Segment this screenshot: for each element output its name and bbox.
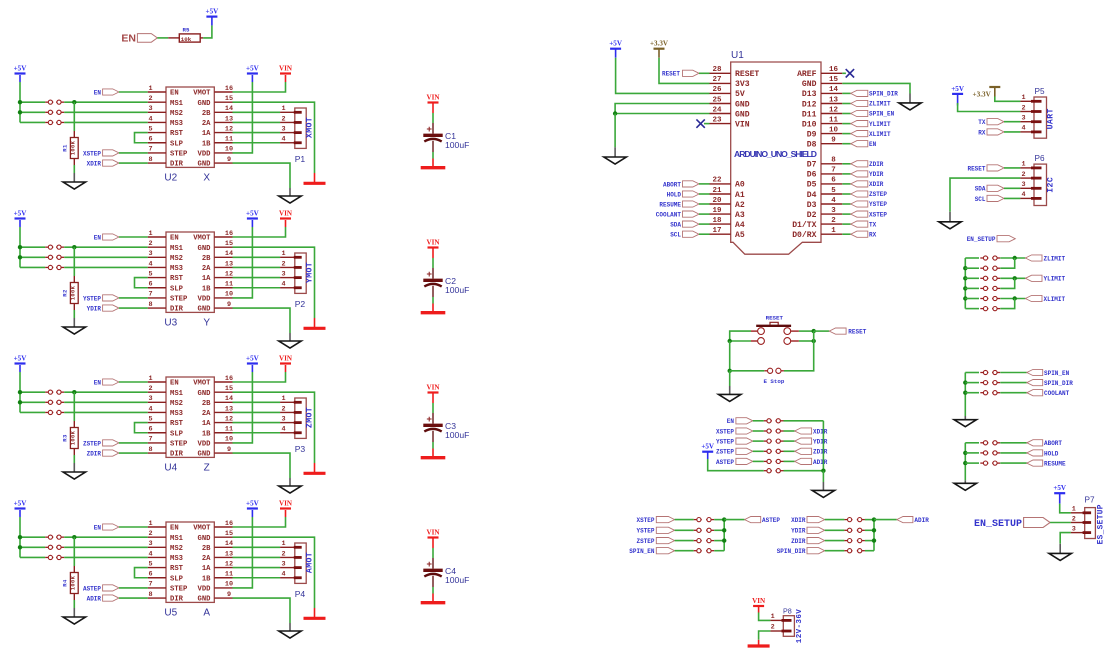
svg-text:XSTEP: XSTEP [83,150,101,157]
svg-text:26: 26 [712,86,722,94]
svg-text:9: 9 [227,156,231,164]
ground (switch) [729,386,731,394]
svg-text:3: 3 [831,207,836,215]
svg-text:U3: U3 [164,317,177,328]
svg-text:VIN: VIN [426,383,440,391]
svg-text:+5V: +5V [1053,484,1067,492]
wire switch row1 right [799,330,814,332]
svg-text:RST: RST [170,565,184,573]
svg-text:X: X [203,173,210,184]
wire MS2 A [64,546,148,548]
svg-text:EN: EN [94,524,102,531]
wire RST-SLP loop U4 [135,423,148,433]
svg-text:3: 3 [282,270,286,278]
wire RST-SLP loop U3 [135,278,148,288]
wire rail (ASTEP) [723,520,725,551]
pin 3 D2 U1 [821,213,842,215]
svg-text:A1: A1 [735,191,745,200]
svg-text:1: 1 [282,105,286,113]
svg-text:5: 5 [148,415,152,423]
svg-text:6: 6 [148,571,152,579]
svg-text:3: 3 [148,250,152,258]
wire +3.3V to P5 pin1 [995,97,1021,102]
svg-text:RESUME: RESUME [1044,461,1066,468]
svg-text:1: 1 [831,227,836,235]
wire rail (ADIR) [873,520,875,551]
wire MS1 to R1 [73,102,75,131]
jumper limit row 6 [980,308,988,310]
svg-text:XMOT: XMOT [306,117,315,138]
svg-text:3V3: 3V3 [735,80,750,89]
jumper SPIN_DIR [980,382,988,384]
wire ZSTEP to pin7 U4 [119,442,148,444]
svg-text:2: 2 [282,405,286,413]
svg-text:10: 10 [225,291,233,299]
svg-text:2A: 2A [202,120,211,128]
svg-text:XLIMIT: XLIMIT [1044,296,1066,303]
svg-text:ABORT: ABORT [1044,440,1062,447]
svg-text:MS2: MS2 [170,255,183,263]
svg-text:YMOT: YMOT [306,262,315,283]
wire VMOT to VIN Z [233,372,286,382]
svg-text:3: 3 [282,415,286,423]
svg-text:4: 4 [282,571,286,579]
svg-text:24: 24 [712,106,722,114]
svg-text:1: 1 [148,520,152,528]
svg-text:GND: GND [735,100,750,109]
junction +5V/MS2 X [18,110,22,114]
junction limit rail 4 [963,296,967,300]
svg-text:15: 15 [225,530,233,538]
svg-text:U2: U2 [164,172,177,183]
junction limit rail 1 [963,266,967,270]
wire jumper to ADIR [784,460,795,462]
net flag XDIR (U1 D5) [842,183,850,185]
wire +5V to MS jumpers Z [19,372,21,412]
wire MS1 Y [64,246,148,248]
wire spin rail [964,373,966,417]
wire EN to pin1 U5 [119,526,148,528]
svg-text:14: 14 [829,86,839,94]
svg-text:4: 4 [148,405,152,413]
svg-text:ZMOT: ZMOT [306,407,315,428]
wire jumper to YDIR [784,440,795,442]
svg-text:XDIR: XDIR [791,517,806,524]
wire MS1 X [64,101,148,103]
wire spin row 2 [965,382,979,384]
resistor R4 100K [73,566,75,573]
jumper MS2 Y [45,256,53,258]
svg-text:VMOT: VMOT [193,380,211,388]
svg-text:D1/TX: D1/TX [792,221,816,230]
wire EN_SETUP to P7 pin2 [1050,522,1071,524]
svg-text:+5V: +5V [14,209,28,217]
wires 2B 2A 1A 1B to P3 [233,401,281,403]
wire right down to E-stop [784,331,814,371]
wire +5V to VDD U2 [233,82,253,153]
wire abort row 3 [965,462,979,464]
svg-text:8: 8 [148,591,152,599]
svg-text:VIN: VIN [279,64,293,72]
wire C2 to ground [432,297,434,304]
power VIN (Z VMOT) [285,365,287,372]
svg-text:13: 13 [829,96,839,104]
svg-text:VIN: VIN [426,238,440,246]
wire +5V to P7 pin1 [1060,504,1071,513]
junction spin rail 1 [963,380,967,384]
svg-text:100uF: 100uF [445,285,469,295]
wire VMOT to VIN A [233,517,286,527]
svg-text:2: 2 [148,95,152,103]
svg-text:15: 15 [225,95,233,103]
svg-text:100K: 100K [71,140,77,155]
svg-text:4: 4 [1021,125,1025,133]
stepper driver IC U3 [166,232,214,312]
svg-text:11: 11 [225,426,233,434]
wire R1 to ground [73,165,75,173]
svg-text:XSTEP: XSTEP [869,211,887,218]
svg-text:ADIR: ADIR [87,595,102,602]
wire ADIR to pin8 U5 [119,597,148,599]
junction row2 left [728,339,732,343]
wire P8 pin2 to ground [759,631,771,640]
svg-text:EN: EN [170,525,179,533]
svg-text:1: 1 [282,395,286,403]
svg-text:RX: RX [978,129,986,136]
svg-text:9: 9 [227,301,231,309]
wire GND pin15 U4 [233,392,315,463]
connector P1 XMOT [295,108,306,148]
svg-text:+5V: +5V [246,499,260,507]
svg-text:MS1: MS1 [170,245,184,253]
jumper YSTEP/ASTEP [694,529,702,531]
svg-text:+5V: +5V [14,499,28,507]
svg-text:1A: 1A [202,420,211,428]
jumper ZDIR/ADIR [844,540,852,542]
svg-text:MS2: MS2 [170,110,183,118]
resistor R1 100K [73,131,75,138]
svg-text:8: 8 [148,446,152,454]
no-connect X on VIN pin23 [704,123,710,125]
svg-text:EN_SETUP: EN_SETUP [974,519,1022,530]
svg-text:U5: U5 [164,607,177,618]
wire VMOT to VIN X [233,82,286,92]
svg-text:VDD: VDD [198,296,212,304]
svg-text:YLIMIT: YLIMIT [1044,276,1066,283]
jumper SPIN_EN [980,372,988,374]
wire bottom to junction [784,470,824,472]
E-stop contacts [768,368,773,373]
svg-text:RESET: RESET [967,165,985,172]
svg-text:STEP: STEP [170,151,188,159]
wire abort row 2 [965,452,979,454]
svg-text:2: 2 [282,115,286,123]
wire jumper to RESUME [1000,462,1027,464]
net flag ZSTEP (U1 D4) [842,193,850,195]
jumper SPIN_EN/ASTEP [694,550,702,552]
junction MS1/R4 A [72,535,76,539]
svg-text:1B: 1B [202,430,211,438]
wire MS3 Y [64,266,148,268]
svg-text:RST: RST [170,130,184,138]
ground (U1 left) [614,147,616,157]
svg-text:4: 4 [148,115,152,123]
svg-text:1: 1 [282,250,286,258]
capacitor C2 100uF [432,268,434,279]
wire MS1 to R2 [73,247,75,276]
ground red (C3) [432,449,434,457]
wire GND pins 25/24 [615,104,709,114]
resistor R5 10k [168,37,179,39]
jumper limit row 3 [980,277,988,279]
wire R5 to +5V [203,25,212,38]
capacitor C3 100uF [432,413,434,424]
pin 25 GND U1 [710,103,731,105]
wire spin row 3 [965,392,979,394]
wire +5V to MS jumpers A [19,517,21,557]
svg-text:ASTEP: ASTEP [83,585,101,592]
ground (pin9 U3) [289,333,291,341]
ground (P7) [1059,544,1061,554]
junction MS1/R2 Y [72,245,76,249]
wire jumper to rail [714,540,724,542]
svg-text:TX: TX [869,221,877,228]
svg-text:D12: D12 [802,100,817,109]
svg-text:HOLD: HOLD [667,191,682,198]
net flag HOLD [1027,450,1043,456]
svg-text:RESET: RESET [735,70,759,79]
wire GND pin9 U3 [233,308,291,333]
svg-text:+: + [426,414,432,425]
svg-text:Y: Y [203,318,210,329]
jumper limit row 2 [980,267,988,269]
wire MS3 X [64,121,148,123]
jumper limit row 1 [980,257,988,259]
wire XSTEP to jumper [675,519,694,521]
svg-text:VMOT: VMOT [193,235,211,243]
wire YSTEP to pin7 U3 [119,297,148,299]
svg-text:16: 16 [225,520,233,528]
wires 2B 2A 1A 1B to P2 [233,256,281,258]
wire EN to R5 [157,37,168,39]
svg-text:GND: GND [735,110,750,119]
svg-text:+: + [426,269,432,280]
svg-text:YDIR: YDIR [869,171,884,178]
svg-text:STEP: STEP [170,586,188,594]
pin 4 D3 U1 [821,203,842,205]
svg-text:17: 17 [712,227,721,235]
pin 1 D0/RX U1 [821,233,842,235]
wire jumper to ZLIMIT [1000,257,1025,259]
svg-text:I2C: I2C [1047,177,1056,193]
power +5V (R5) [211,17,213,26]
junction rail ADIR 2 [872,528,876,532]
svg-text:12: 12 [225,270,233,278]
junction XLIMIT [1013,296,1017,300]
svg-text:8: 8 [148,156,152,164]
svg-text:11: 11 [225,136,233,144]
svg-text:1: 1 [282,540,286,548]
wire ASTEP to jumper [753,460,764,462]
svg-text:YLIMIT: YLIMIT [869,121,891,128]
wire MS3 Z [64,411,148,413]
svg-text:14: 14 [225,540,233,548]
svg-text:VMOT: VMOT [193,90,211,98]
svg-text:2: 2 [831,217,836,225]
wire VMOT to VIN Y [233,227,286,237]
wire switch row2 left [730,340,751,342]
svg-text:MS1: MS1 [170,100,184,108]
net flag RX (U1 D0/RX) [842,233,850,235]
svg-text:MS3: MS3 [170,555,183,563]
svg-text:R3: R3 [62,434,69,442]
svg-text:3: 3 [1021,181,1025,189]
wire RESET to P6 pin1 [1004,167,1020,169]
capacitor C4 100uF [432,558,434,569]
svg-text:RESET: RESET [662,71,680,78]
svg-text:9: 9 [227,591,231,599]
svg-text:GND: GND [198,390,212,398]
svg-text:RESET: RESET [766,315,784,322]
svg-text:COOLANT: COOLANT [1044,390,1070,397]
svg-text:20: 20 [712,197,722,205]
svg-text:P5: P5 [1034,87,1044,96]
junction +5V/MS1 A [18,535,22,539]
net flag YDIR (matrix) [795,438,812,444]
jumper SPIN_DIR/ADIR [844,550,852,552]
svg-text:A2: A2 [735,201,745,210]
svg-text:100uF: 100uF [445,430,469,440]
jumper matrix row 5 [764,460,772,462]
wire GND pin9 U2 [233,163,291,188]
svg-text:+5V: +5V [14,64,28,72]
svg-text:D7: D7 [807,161,817,170]
net flag SPIN_EN [1027,369,1043,375]
wire YDIR to pin8 U3 [119,307,148,309]
svg-text:1B: 1B [202,285,211,293]
connector P3 ZMOT [295,398,306,438]
svg-text:100K: 100K [71,430,77,445]
svg-text:2A: 2A [202,410,211,418]
svg-text:RST: RST [170,420,184,428]
svg-text:VIN: VIN [279,499,293,507]
svg-text:2: 2 [1021,104,1025,112]
jumper MS2 X [45,111,53,113]
resistor R3 100K [73,421,75,428]
svg-text:2B: 2B [202,400,211,408]
svg-text:MS3: MS3 [170,120,183,128]
svg-text:15: 15 [829,76,839,84]
wire YDIR to jumper [825,529,845,531]
svg-text:SLP: SLP [170,285,184,293]
svg-text:1A: 1A [202,275,211,283]
svg-text:XDIR: XDIR [87,160,102,167]
wire EN to jumper [753,420,764,422]
svg-text:SDA: SDA [975,186,986,193]
wire VIN to C1 [432,113,434,123]
svg-text:16: 16 [225,375,233,383]
ground (R3) [73,463,75,472]
svg-text:1: 1 [148,375,152,383]
pin 28 RESET U1 [710,72,731,74]
svg-text:ZDIR: ZDIR [87,450,102,457]
svg-text:5: 5 [831,187,836,195]
jumper limit row 5 [980,298,988,300]
junction rail ASTEP 2 [722,528,726,532]
svg-text:VIN: VIN [752,597,766,605]
wire RX to P5 pin4 [1004,131,1020,133]
pin 9 D8 U1 [821,143,842,145]
svg-text:4: 4 [282,426,286,434]
svg-text:4: 4 [282,281,286,289]
wire to ground (switch) [729,371,731,386]
net flag XDIR (matrix) [795,428,812,434]
svg-text:ADIR: ADIR [914,517,929,524]
ground (R1) [73,173,75,182]
svg-text:ZDIR: ZDIR [791,538,806,545]
capacitor C1 100uF [432,123,434,134]
wire VIN to C4 [432,548,434,558]
svg-text:ZLIMIT: ZLIMIT [869,101,891,108]
ground (matrix) [822,482,824,490]
wire GND down [614,114,616,148]
wire VIN to C2 [432,258,434,268]
svg-text:4: 4 [1021,191,1025,199]
svg-text:SPIN_EN: SPIN_EN [1044,370,1070,377]
svg-text:1: 1 [148,230,152,238]
wire limit row 6 [965,308,979,310]
wires 2B 2A 1A 1B to P1 [233,111,281,113]
svg-text:VIN: VIN [279,209,293,217]
svg-text:9: 9 [831,137,836,145]
ground (U1 right) [909,94,911,103]
wire jumper to rail [714,550,724,552]
svg-text:GND: GND [198,596,212,604]
wire +5V to MS jumpers Y [19,227,21,267]
connector P5 UART [1020,100,1034,102]
wire limit row 2 [965,267,979,269]
svg-text:R1: R1 [62,144,69,152]
junction abort rail 2 [963,461,967,465]
svg-text:+5V: +5V [701,443,715,451]
ground red (C4) [432,594,434,602]
wire EN to pin1 U3 [119,236,148,238]
svg-text:16: 16 [829,66,839,74]
wire RST-SLP loop U2 [135,133,148,143]
stepper driver IC U2 [166,87,214,167]
wire XDIR to jumper [825,519,845,521]
svg-text:5: 5 [148,270,152,278]
svg-text:EN: EN [869,141,877,148]
svg-text:1B: 1B [202,575,211,583]
wire GND pin15 U2 [233,102,315,173]
svg-text:28: 28 [712,66,722,74]
svg-text:P4: P4 [295,589,306,599]
wire +3.3V to 3V3 pin [659,58,710,84]
svg-text:10: 10 [225,581,233,589]
wire ZDIR to pin8 U4 [119,452,148,454]
svg-text:VDD: VDD [198,586,212,594]
wire XDIR to pin8 U2 [119,162,148,164]
svg-text:ZDIR: ZDIR [813,449,828,456]
svg-text:SPIN_DIR: SPIN_DIR [1044,380,1073,387]
jumper matrix row 2 [764,430,772,432]
svg-text:2: 2 [148,530,152,538]
jumper MS3 Z [45,411,53,413]
wire C1 to ground [432,152,434,159]
jumper COOLANT [980,392,988,394]
svg-text:A: A [203,608,210,619]
